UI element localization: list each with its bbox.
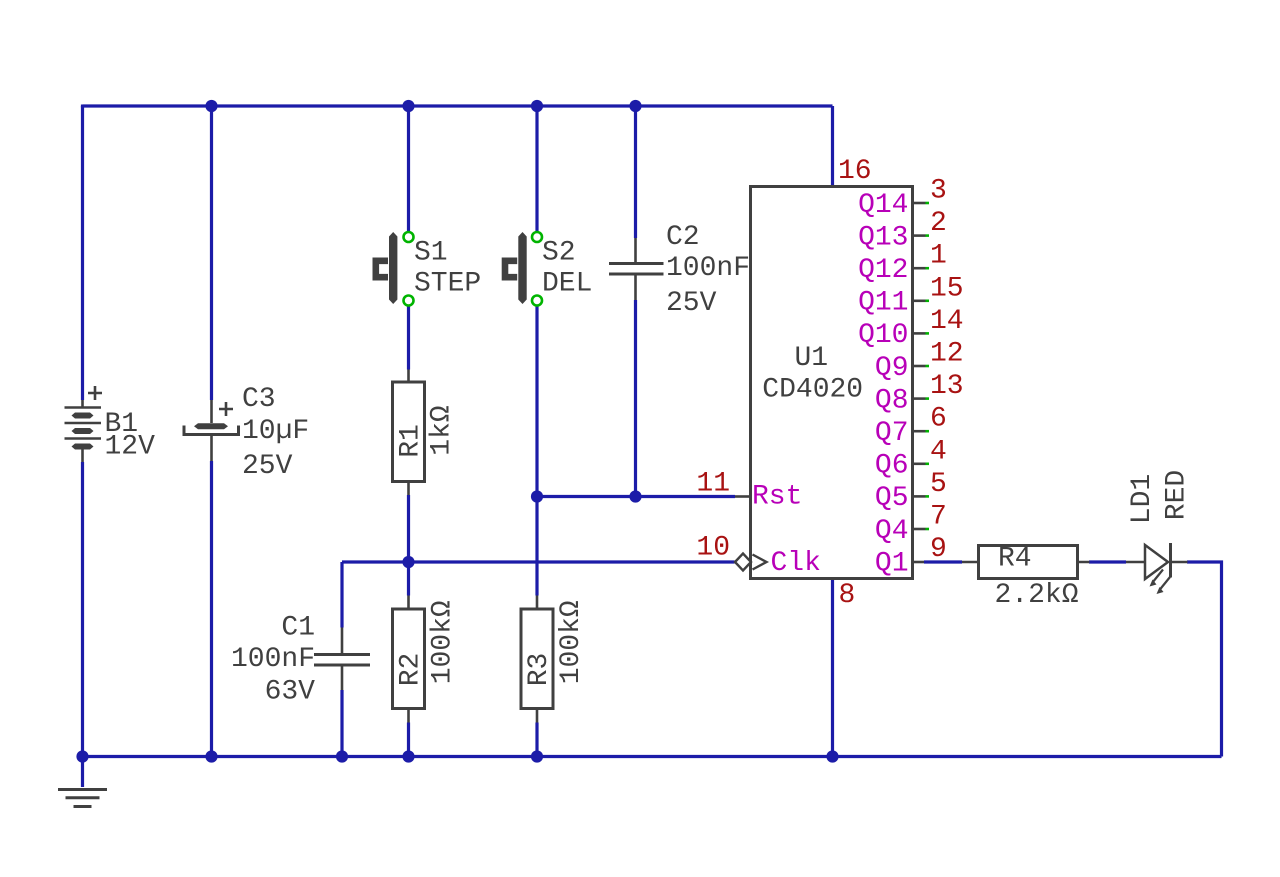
svg-text:RED: RED: [1162, 470, 1193, 520]
svg-text:1: 1: [930, 241, 947, 272]
wire ground stub: [81, 757, 84, 788]
svg-text:R4: R4: [998, 544, 1032, 575]
pin Q13 stub: [913, 234, 926, 237]
pin Q6 stub: [913, 462, 926, 465]
switch S1: [389, 232, 397, 304]
svg-text:C1: C1: [281, 613, 315, 644]
wire Clk net: [342, 560, 735, 563]
svg-text:Q13: Q13: [858, 222, 908, 253]
node bottom R3: [531, 750, 543, 762]
svg-text:15: 15: [930, 273, 964, 304]
pin Q5 stub: [913, 495, 926, 498]
svg-text:100kΩ: 100kΩ: [556, 600, 587, 684]
pin Q4 stub: [913, 528, 926, 531]
svg-text:13: 13: [930, 371, 964, 402]
svg-text:4: 4: [930, 436, 947, 467]
svg-text:6: 6: [930, 404, 947, 435]
svg-text:10: 10: [696, 533, 730, 564]
svg-text:7: 7: [930, 502, 947, 533]
svg-text:R2: R2: [395, 653, 426, 687]
svg-text:Q12: Q12: [858, 255, 908, 286]
wire C1 bottom: [340, 690, 343, 757]
svg-text:Q8: Q8: [875, 385, 909, 416]
switch S2: [518, 232, 526, 304]
wire C3 bottom: [210, 461, 213, 757]
wire C2 top: [634, 106, 637, 238]
svg-text:12V: 12V: [105, 432, 156, 463]
svg-text:Clk: Clk: [771, 548, 821, 579]
wire Rst net: [537, 495, 735, 498]
pin Q7 stub: [913, 430, 926, 433]
wire bottom rail: [81, 755, 1222, 758]
node bottom C3: [205, 750, 217, 762]
svg-text:CD4020: CD4020: [762, 374, 863, 405]
pin Rst stub: [735, 495, 751, 498]
wire R4 to LED: [1089, 560, 1126, 563]
svg-text:Q6: Q6: [875, 451, 909, 482]
svg-text:1kΩ: 1kΩ: [427, 405, 458, 456]
svg-text:14: 14: [930, 306, 964, 337]
svg-text:100nF: 100nF: [231, 644, 315, 675]
svg-text:DEL: DEL: [542, 269, 592, 300]
svg-text:Q14: Q14: [858, 190, 908, 221]
wire S1 top: [407, 106, 410, 233]
wire LED to right rail: [1187, 562, 1222, 757]
node Rst S2: [531, 490, 543, 502]
resistor R2: [407, 596, 410, 723]
wire left drop to battery: [81, 106, 84, 400]
node top rail C3: [205, 100, 217, 112]
node top rail S2: [531, 100, 543, 112]
svg-text:Q11: Q11: [858, 288, 908, 319]
wire pin8 drop: [831, 579, 834, 757]
pin Q1 stub: [913, 561, 925, 564]
svg-text:Q5: Q5: [875, 483, 909, 514]
LED LD1: [1126, 561, 1188, 564]
resistor R4: [962, 561, 1090, 564]
battery B1: [65, 400, 102, 462]
svg-text:16: 16: [838, 156, 872, 187]
svg-text:3: 3: [930, 176, 947, 207]
svg-text:R1: R1: [395, 424, 426, 458]
capacitor C2: [609, 238, 664, 300]
wire pin16 drop: [831, 106, 834, 187]
capacitor C3: [184, 400, 239, 461]
svg-text:100nF: 100nF: [666, 253, 750, 284]
svg-text:U1: U1: [795, 343, 829, 374]
node Clk R1 R2: [402, 556, 414, 568]
node bottom C1: [336, 750, 348, 762]
svg-text:C2: C2: [666, 222, 700, 253]
pin Q11 stub: [913, 299, 926, 302]
wire S2 top: [535, 106, 538, 233]
svg-text:S2: S2: [542, 238, 576, 269]
svg-text:2: 2: [930, 208, 947, 239]
node Rst C2: [629, 490, 641, 502]
svg-text:STEP: STEP: [414, 269, 481, 300]
wire R2 top: [407, 562, 410, 596]
pin Q10 stub: [913, 332, 926, 335]
node top rail S1: [402, 100, 414, 112]
wire R3 bottom: [535, 723, 538, 757]
svg-text:Q1: Q1: [875, 548, 909, 579]
svg-text:Q7: Q7: [875, 418, 909, 449]
resistor R3: [536, 596, 539, 723]
node bottom pin8: [826, 750, 838, 762]
IC U1 CD4020: [751, 187, 913, 579]
wire battery bottom: [81, 462, 84, 757]
svg-text:2.2kΩ: 2.2kΩ: [995, 580, 1079, 611]
wire S2 bottom to R3: [535, 305, 538, 596]
svg-text:10µF: 10µF: [242, 416, 309, 447]
pin Q12 stub: [913, 267, 926, 270]
node bottom R2: [402, 750, 414, 762]
clock input symbol: [735, 554, 751, 571]
svg-text:5: 5: [930, 469, 947, 500]
wire S1 bottom to R1: [407, 305, 410, 370]
svg-text:Q4: Q4: [875, 516, 909, 547]
wire top rail: [83, 105, 833, 107]
svg-text:LD1: LD1: [1127, 474, 1158, 524]
svg-text:9: 9: [930, 534, 947, 565]
svg-text:Rst: Rst: [752, 482, 802, 513]
wire Q1 to R4: [924, 560, 962, 563]
ground: [58, 790, 107, 807]
pin Q9 stub: [913, 365, 926, 368]
resistor R1: [407, 370, 410, 496]
svg-text:63V: 63V: [265, 676, 316, 707]
svg-text:12: 12: [930, 339, 964, 370]
svg-text:8: 8: [839, 580, 856, 611]
svg-text:100kΩ: 100kΩ: [428, 600, 459, 684]
node top rail C2: [629, 100, 641, 112]
svg-text:Q10: Q10: [858, 320, 908, 351]
svg-text:R3: R3: [524, 653, 555, 687]
capacitor C1: [314, 628, 370, 691]
svg-text:S1: S1: [414, 238, 448, 269]
wire C2 bottom to Rst net: [634, 300, 637, 497]
svg-text:25V: 25V: [666, 288, 717, 319]
svg-text:Q9: Q9: [875, 353, 909, 384]
svg-text:C3: C3: [242, 384, 276, 415]
pin Q14 stub: [913, 202, 926, 205]
wire C3 top: [210, 106, 213, 400]
node bottom battery: [76, 750, 88, 762]
pin Q8 stub: [913, 397, 926, 400]
wire R2 bottom: [407, 723, 410, 757]
svg-text:11: 11: [696, 469, 730, 500]
wire C1 corner: [340, 562, 343, 628]
svg-text:25V: 25V: [242, 451, 293, 482]
wire R1 bottom to Clk net: [407, 495, 410, 562]
